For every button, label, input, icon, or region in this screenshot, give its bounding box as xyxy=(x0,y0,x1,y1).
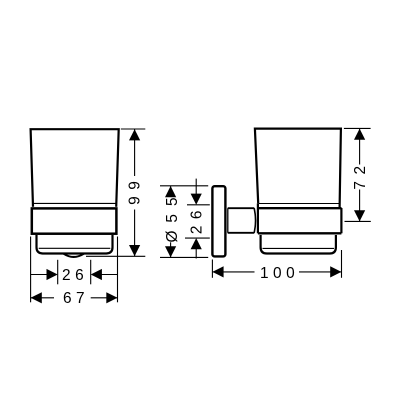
dim 100 arrow right xyxy=(330,266,341,277)
dim 26 front leader right with arrow xyxy=(101,274,118,276)
holder lower shell inner line front view xyxy=(39,247,111,249)
dim 72 line xyxy=(359,129,361,165)
dim 100 ext right xyxy=(341,250,343,278)
holder band side view left edge xyxy=(257,203,259,233)
dim dia55 arrow down xyxy=(165,246,176,257)
svg-text:26: 26 xyxy=(188,204,205,234)
svg-text:99: 99 xyxy=(127,175,144,205)
dim 67 arrow right xyxy=(106,292,117,303)
dim 26 side ext lines xyxy=(187,204,210,206)
dim 72 ext top xyxy=(344,127,371,129)
dim 26 front ext lines xyxy=(57,260,59,285)
dim 72 arrow down xyxy=(354,210,365,221)
glass side view outline xyxy=(255,129,341,208)
holder band side view right edge xyxy=(340,208,342,233)
glass side view rim line xyxy=(259,203,339,205)
holder band side view bottom edge xyxy=(258,232,342,234)
svg-text:26: 26 xyxy=(62,267,88,284)
holder lower shell front view xyxy=(37,235,113,254)
svg-text:Ø55: Ø55 xyxy=(164,189,181,242)
dim 99 extension line bottom xyxy=(86,255,145,257)
dim dia55 ext bottom xyxy=(160,256,208,258)
dim dia55 ext top xyxy=(160,185,208,187)
dim 100 line xyxy=(212,271,254,273)
arm bottom edge xyxy=(228,232,255,234)
dim 99 extension line top xyxy=(121,128,146,130)
dim 99 arrow up xyxy=(129,129,140,140)
dim 67 line xyxy=(31,297,54,299)
dim 99 line xyxy=(134,129,136,176)
svg-text:72: 72 xyxy=(352,159,369,189)
holder ring band front view xyxy=(32,208,117,233)
dim 26 side line bottom with arrow up xyxy=(195,249,197,259)
holder lower shell inner line side view xyxy=(263,247,335,249)
arm end cap curve xyxy=(254,208,255,233)
holder lower shell side view xyxy=(261,235,336,254)
dim 67 ext lines xyxy=(30,237,32,303)
dim 100 arrow left xyxy=(212,266,223,277)
arm left end line xyxy=(227,208,229,233)
dim 67 arrow left xyxy=(31,292,42,303)
dim 99 arrow down xyxy=(129,245,140,256)
dim 26 side line top with arrow down xyxy=(195,179,197,195)
arm top edge xyxy=(228,207,255,209)
holder band side view top edge xyxy=(258,207,342,209)
svg-text:100: 100 xyxy=(260,265,299,282)
wall plate side view xyxy=(212,186,225,256)
svg-text:67: 67 xyxy=(63,290,89,307)
glass foot bump front view xyxy=(64,254,85,257)
tumbler front view: glass outline xyxy=(31,129,119,207)
dim 72 ext bottom xyxy=(345,220,371,222)
tumbler front view: glass bottom rim line xyxy=(34,202,116,204)
dim 72 arrow up xyxy=(354,129,365,140)
dim dia55 arrow up xyxy=(165,186,176,197)
dim dia55 line xyxy=(170,186,172,196)
dim 26 front leader left with arrow xyxy=(31,274,48,276)
dim 100 ext left xyxy=(211,260,213,278)
